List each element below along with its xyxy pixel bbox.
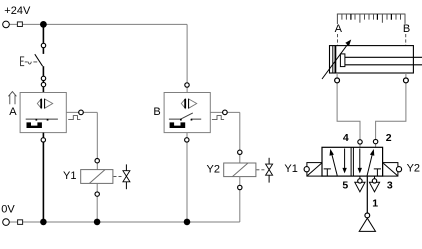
- coil Y2 diagonal: [232, 163, 248, 177]
- sensor B icon: [181, 99, 196, 108]
- terminal B output: [223, 110, 228, 115]
- svg-text:1: 1: [372, 198, 378, 210]
- dashed link Y1: [114, 175, 123, 177]
- pilot solenoid Y1: [307, 163, 322, 177]
- proximity sensor box B: [164, 93, 210, 133]
- cylinder inner wall: [332, 46, 334, 73]
- svg-text:+24V: +24V: [4, 5, 31, 17]
- solenoid coil Y1: [81, 170, 113, 184]
- exhaust port 3 stub: [374, 176, 376, 182]
- ruler scale: [337, 14, 406, 24]
- tube cylinder left to port 4: [337, 73, 360, 147]
- wire A output down to Y1: [96, 112, 98, 169]
- rod flange: [340, 54, 345, 67]
- redraw port circles over tubes: [335, 78, 340, 83]
- piston: [334, 46, 336, 73]
- valve body: [322, 147, 383, 176]
- terminal box B bottom: [185, 138, 189, 142]
- exhaust 5 triangle: [355, 182, 365, 192]
- terminal box B top: [185, 83, 189, 87]
- terminal Y1 top: [95, 159, 99, 163]
- exhaust port 5 stub: [359, 176, 361, 182]
- wire B output down to Y2: [239, 112, 241, 163]
- junction node B/0V: [184, 219, 191, 226]
- svg-text:Y1: Y1: [284, 163, 297, 175]
- svg-text:A: A: [9, 106, 17, 118]
- piston rod: [345, 57, 422, 65]
- blocked port right square: [374, 169, 381, 176]
- flow path right square down-arrow: [359, 149, 361, 169]
- wire +24V rail down to box B: [186, 24, 188, 92]
- pulse icon A: [68, 116, 80, 120]
- pulse icon B: [212, 116, 224, 120]
- svg-text:Y1: Y1: [63, 170, 76, 182]
- dashed position line B: [405, 34, 407, 45]
- cushioning arrow: [322, 44, 348, 79]
- compressed air source: [359, 218, 375, 231]
- tube cylinder right to port 2: [376, 73, 406, 147]
- wire Y1 bottom: [96, 183, 98, 222]
- wire box A output right: [66, 111, 97, 113]
- svg-text:Y2: Y2: [407, 163, 420, 175]
- cylinder port left: [335, 78, 340, 83]
- cylinder body: [330, 46, 414, 73]
- wire +24V rail: [10, 23, 188, 25]
- terminal box A bottom: [41, 138, 45, 142]
- coil Y1 diagonal: [89, 170, 105, 184]
- svg-text:3: 3: [387, 179, 393, 191]
- dashed position line A: [337, 34, 339, 45]
- wire Y2 bottom: [239, 177, 241, 222]
- svg-text:A: A: [335, 23, 343, 35]
- wire box B output right: [210, 111, 240, 113]
- cylinder port right: [404, 78, 409, 83]
- wire switch to box A (live): [42, 66, 44, 92]
- terminal port 2: [373, 139, 377, 143]
- terminal box A top: [41, 82, 45, 86]
- supply line port 1: [366, 176, 368, 213]
- exhaust 3 triangle: [369, 182, 379, 192]
- switch linkage dashed: [25, 61, 38, 63]
- label E: [21, 57, 25, 66]
- terminal switch bottom: [41, 76, 45, 80]
- flow path left square down-arrow: [344, 149, 346, 169]
- pilot solenoid Y2: [383, 163, 398, 177]
- svg-text:0V: 0V: [1, 204, 15, 216]
- terminal port 1: [365, 213, 370, 218]
- svg-text:5: 5: [342, 179, 348, 191]
- wire box B bottom to 0V: [186, 133, 188, 222]
- terminal switch top: [41, 43, 45, 47]
- valve link symbol Y1: [125, 164, 127, 189]
- wire junction to switch (live): [42, 24, 44, 54]
- terminal +24V: [3, 21, 10, 28]
- terminal port 5: [358, 179, 362, 183]
- terminal port 4: [358, 140, 362, 144]
- terminal Y2 top: [238, 150, 242, 154]
- proximity sensor box A: [20, 93, 66, 133]
- junction node +24V/A: [40, 21, 47, 28]
- svg-text:B: B: [403, 23, 410, 35]
- switch linkage curve: [28, 62, 31, 64]
- blocked port left square: [324, 169, 331, 176]
- terminal port 3: [372, 179, 376, 183]
- dashed link Y2: [256, 169, 265, 171]
- sensor A icon: [37, 99, 52, 108]
- pilot Y1 terminal: [304, 167, 309, 172]
- terminal 0V: [3, 219, 10, 226]
- connector square +24V: [17, 22, 22, 27]
- wire box A bottom to 0V (live): [42, 133, 44, 222]
- ruler bold ticks: [351, 14, 392, 20]
- flow path right square up-arrow: [367, 155, 372, 177]
- sensor B magnet: [170, 122, 186, 128]
- junction node Y1/0V: [94, 219, 101, 226]
- terminal Y2 bottom: [238, 185, 242, 189]
- sensor A contact (closed): [26, 118, 58, 120]
- svg-text:2: 2: [386, 132, 392, 144]
- svg-text:Y2: Y2: [207, 164, 220, 176]
- connector square 0V: [18, 220, 23, 225]
- pilot Y2 terminal: [396, 167, 401, 172]
- flow path left square up-arrow: [332, 155, 337, 176]
- sensor B contact (open): [169, 118, 201, 120]
- solenoid coil Y2: [224, 163, 256, 177]
- sensor A magnet: [27, 122, 42, 128]
- valve link symbol Y2: [268, 158, 270, 183]
- svg-text:B: B: [153, 106, 160, 118]
- terminal A output: [79, 110, 84, 115]
- wire 0V rail: [10, 221, 240, 223]
- valve position divider: [351, 147, 353, 176]
- actuation arrow at A: [8, 92, 16, 105]
- svg-text:4: 4: [343, 132, 349, 144]
- junction node A/0V: [40, 219, 47, 226]
- terminal Y1 bottom: [95, 192, 99, 196]
- switch E blade: [35, 54, 43, 66]
